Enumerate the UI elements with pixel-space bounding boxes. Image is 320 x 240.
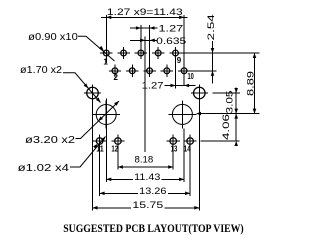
extension line pin 11 down [99, 148, 101, 196]
arrowhead dim 15.75 left [93, 206, 98, 210]
svg-text:12: 12 [111, 145, 118, 154]
svg-text:10: 10 [187, 72, 194, 81]
arrowhead leader 3.20 upper [114, 101, 119, 106]
arrowhead dim 8.89 top [253, 53, 257, 58]
pin 1 hole 0.90 [100, 47, 112, 59]
extension line hole-1.70-R right [213, 92, 241, 94]
arrowhead dim 4.06 top [234, 109, 238, 114]
svg-text:13.26: 13.26 [139, 186, 166, 197]
pin 12 hole 1.02 [111, 134, 124, 147]
arrowhead dim 2.54 top [211, 48, 215, 53]
dimension line 0.635 [130, 39, 158, 41]
arrowhead dim 2.54 bottom [211, 71, 215, 76]
leader line for 0.90 holes [78, 36, 115, 61]
svg-text:ø3.20 x2: ø3.20 x2 [25, 135, 76, 146]
dimension line 1.27 top [130, 27, 158, 29]
arrowhead dim 0.635 left [140, 39, 145, 43]
dimension line 1.27x9=11.43 [101, 16, 188, 18]
pin 14 hole 1.02 [184, 134, 197, 147]
extension line hole-1.70-L down [92, 102, 94, 211]
svg-text:1: 1 [103, 58, 108, 67]
pin 4 hole 0.90 [126, 65, 138, 77]
extension line big-hole-R right [200, 113, 259, 115]
arrowhead dim 1.27 right left [171, 84, 176, 88]
extension line pins 13-14 right [201, 140, 240, 142]
arrowhead leader 1.70 [84, 83, 89, 88]
arrowhead dim 13.26 left [100, 192, 105, 196]
svg-text:2: 2 [113, 73, 118, 82]
arrowhead dim 1.27 right right [184, 84, 189, 88]
center line [144, 36, 146, 152]
extension line pin 9 down [175, 59, 177, 88]
arrowhead dim 8.18 left [118, 165, 123, 169]
extension line row 1 right [182, 52, 260, 54]
dimension line 11.43 left part [106, 178, 133, 180]
arrowhead dim 3.05 top [234, 88, 238, 93]
pin 5 hole 0.90 [135, 47, 147, 59]
pin 2 hole 0.90 [109, 65, 121, 77]
leader line for 1.70 holes [63, 73, 101, 103]
svg-text:13: 13 [171, 145, 178, 154]
dimension line 13.26 right part [168, 192, 190, 194]
pin 13 hole 1.02 [167, 134, 180, 147]
extension line pin 10 down upper [183, 77, 185, 86]
dimension line 8.18 [118, 166, 173, 168]
svg-text:11.43: 11.43 [134, 172, 160, 183]
dimension line 11.43 right part [162, 178, 185, 180]
extension line pin 1 below [105, 56, 107, 63]
arrowhead dim 15.75 right [194, 206, 199, 210]
extension line pin 10 down lower [183, 129, 185, 182]
pin 7 hole 0.90 [152, 47, 164, 59]
svg-text:ø1.70 x2: ø1.70 x2 [20, 65, 62, 76]
arrowhead dim 11.43 left [106, 178, 111, 182]
svg-text:0.635: 0.635 [156, 36, 186, 47]
dimension line 15.75 right part [165, 207, 200, 209]
arrowhead dim 0.635 right [150, 39, 155, 43]
arrowhead dim 3.05 bottom [234, 114, 238, 119]
svg-text:2.54: 2.54 [206, 14, 217, 40]
dimension line 2.54 [212, 41, 214, 84]
arrowhead leader 0.90 [99, 46, 104, 51]
extension line row 2 right [190, 70, 217, 72]
arrowhead dim 13.26 right [185, 192, 190, 196]
dimension line 15.75 left part [93, 207, 132, 209]
extension line pin 6 top [149, 25, 151, 65]
svg-text:ø1.02 x4: ø1.02 x4 [18, 163, 70, 174]
arrowhead dim 8.18 right [168, 165, 173, 169]
svg-text:8.89: 8.89 [245, 71, 256, 96]
svg-text:14: 14 [184, 145, 191, 154]
extension line pin 14 down [189, 148, 191, 196]
mounting hole 3.20 left [92, 101, 120, 129]
extension line pin 1 bottom [105, 99, 107, 182]
arrowhead leader 1.02 end [101, 137, 106, 142]
arrowhead dim 8.89 bottom [253, 109, 257, 114]
svg-text:15.75: 15.75 [132, 200, 163, 211]
arrowhead leader 1.02 [93, 144, 98, 149]
extension line pin 1 top [105, 15, 107, 47]
hole 1.70 right [191, 85, 208, 102]
arrowhead dim 1.27 top left [136, 26, 141, 30]
svg-text:9: 9 [177, 56, 182, 65]
mounting hole 3.20 right [168, 100, 196, 128]
pin 9 hole 0.90 [169, 47, 181, 59]
arrowhead ext big-hole-R [196, 112, 201, 116]
arrowhead dim 1.27 top right [150, 26, 155, 30]
leader line for 1.02 holes [70, 137, 106, 168]
svg-text:3.05: 3.05 [225, 91, 236, 114]
extension line pin 13 down [172, 148, 174, 170]
arrowhead dim 4.06 bottom [234, 141, 238, 146]
arrowhead leader 3.20 lower [98, 116, 103, 121]
svg-text:11: 11 [96, 145, 104, 154]
dimension line 3.05 and 4.06 [235, 88, 237, 142]
pin 10 hole 0.90 [178, 65, 190, 77]
extension line pin 5 top [140, 25, 142, 47]
svg-text:1.27: 1.27 [142, 81, 164, 92]
svg-text:1.27 x9=11.43: 1.27 x9=11.43 [107, 7, 183, 18]
pin 11 hole 1.02 [93, 134, 106, 147]
arrowhead dim 11.43 top left [106, 16, 111, 20]
extension line pin 10 top [183, 15, 185, 65]
svg-text:8.18: 8.18 [135, 154, 154, 165]
svg-text:ø0.90 x10: ø0.90 x10 [28, 32, 78, 43]
extension line pin 12 down [117, 148, 119, 170]
extension line hole-1.70-R down [198, 102, 200, 211]
dimension line 13.26 left part [100, 192, 138, 194]
pin 6 hole 0.90 [143, 65, 155, 77]
dimension line 8.89 [254, 53, 256, 114]
leader line for 3.20 holes [76, 101, 120, 139]
pin 3 hole 0.90 [117, 47, 129, 59]
arrowhead dim 11.43 right [179, 178, 184, 182]
arrowhead dim 11.43 top right [179, 16, 184, 20]
svg-text:4.06: 4.06 [221, 114, 232, 140]
dimension line 1.27 right [165, 85, 196, 87]
hole 1.70 left [84, 85, 101, 102]
svg-text:SUGGESTED PCB LAYOUT(TOP VIEW): SUGGESTED PCB LAYOUT(TOP VIEW) [63, 221, 244, 235]
svg-text:1.27: 1.27 [159, 23, 184, 34]
arrowhead leader 1.70 end [96, 98, 101, 103]
pin 8 hole 0.90 [161, 65, 173, 77]
